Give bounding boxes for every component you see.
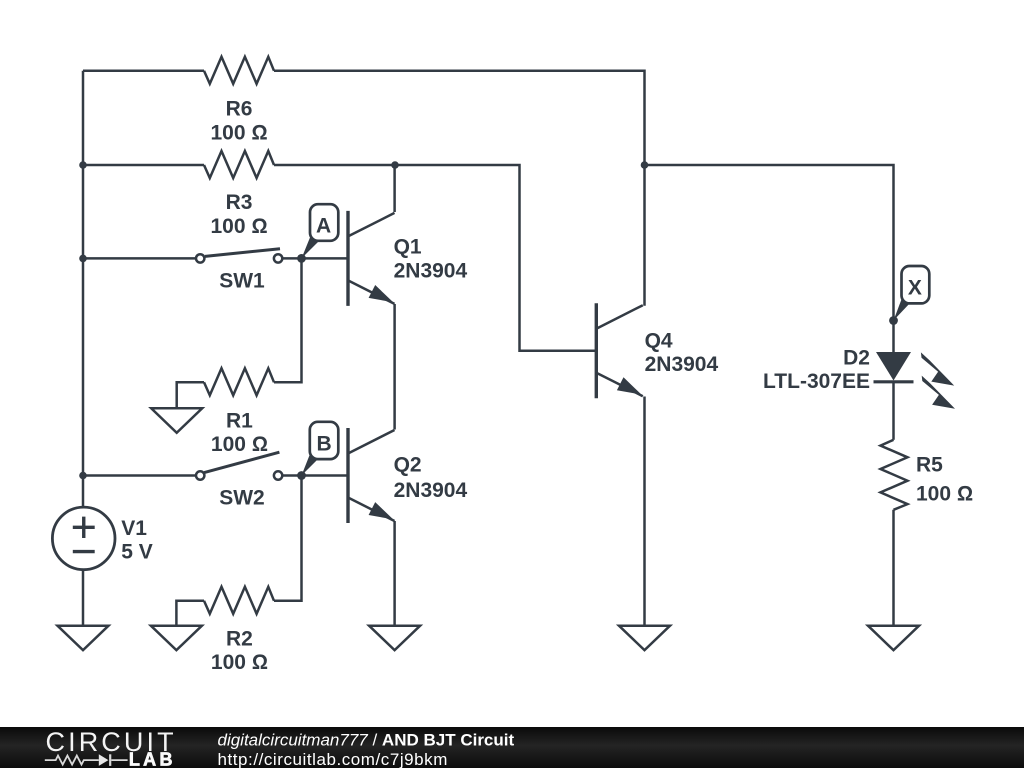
- wire R2 left lead to ground: [176, 601, 204, 626]
- svg-text:R3: R3: [226, 191, 253, 214]
- svg-text:100 Ω: 100 Ω: [211, 433, 268, 456]
- footer bar: [0, 727, 1024, 768]
- logo schematic squiggle: [45, 754, 128, 766]
- node dot X: [889, 316, 898, 325]
- wire top rail from left rail to R6: [83, 70, 204, 73]
- wire R6 right to corner and down through node to Q4 collector: [274, 71, 645, 306]
- wire SW2 row left: [83, 474, 196, 477]
- node dot left rail R3 row: [79, 161, 87, 169]
- wire node A down to R1: [274, 258, 302, 382]
- LED arrow 2: [922, 376, 955, 409]
- wire R3 row left lead: [83, 164, 204, 167]
- svg-text:X: X: [908, 276, 922, 299]
- svg-text:100 Ω: 100 Ω: [210, 122, 267, 145]
- wire R1 left lead to ground: [177, 382, 204, 408]
- wire Q2 emitter to ground: [393, 521, 396, 626]
- svg-text:digitalcircuitman777 / AND BJT: digitalcircuitman777 / AND BJT Circuit: [218, 730, 515, 749]
- node dot left rail SW2 row: [79, 472, 87, 480]
- svg-text:B: B: [317, 432, 332, 455]
- svg-text:LAB: LAB: [129, 750, 176, 768]
- resistor R3: [204, 151, 274, 178]
- wire SW1 row left: [83, 257, 196, 260]
- svg-text:R6: R6: [226, 98, 253, 121]
- voltage source V1: [52, 507, 115, 570]
- node dot A: [297, 254, 306, 263]
- svg-text:100 Ω: 100 Ω: [210, 215, 267, 238]
- svg-text:100 Ω: 100 Ω: [211, 651, 268, 674]
- wire R5 bottom to ground: [892, 510, 895, 626]
- svg-text:R5: R5: [916, 454, 943, 477]
- svg-text:2N3904: 2N3904: [394, 259, 468, 282]
- wire Q1 collector lead: [393, 165, 396, 212]
- ground below Q2: [369, 626, 420, 651]
- node label X: [894, 266, 930, 321]
- svg-text:http://circuitlab.com/c7j9bkm: http://circuitlab.com/c7j9bkm: [218, 750, 448, 768]
- resistor R1: [204, 368, 274, 395]
- svg-text:SW2: SW2: [219, 486, 265, 509]
- node dot Q1 collector: [391, 161, 399, 169]
- ground below Q4: [619, 626, 670, 651]
- switch SW2: [196, 452, 282, 479]
- svg-text:Q1: Q1: [394, 236, 422, 259]
- svg-text:Q2: Q2: [394, 454, 422, 477]
- wire SW1 to Q1 base: [283, 257, 348, 260]
- wire Q1 emitter to Q2 collector: [393, 304, 396, 430]
- node dot left rail SW1 row: [79, 255, 87, 263]
- logo diode triangle: [99, 754, 109, 766]
- ground below R1: [151, 408, 202, 433]
- LED D2: [874, 352, 956, 409]
- transistor Q4: [596, 303, 643, 398]
- node label B: [302, 422, 339, 476]
- wire V1 bottom to ground: [82, 570, 85, 626]
- node label A: [302, 204, 339, 258]
- svg-text:LTL-307EE: LTL-307EE: [763, 370, 870, 393]
- svg-text:D2: D2: [843, 346, 870, 369]
- wire LED cathode to R5: [892, 382, 895, 440]
- transistor Q1: [348, 211, 395, 306]
- transistor Q2: [348, 428, 395, 523]
- ground below R2: [151, 626, 202, 651]
- resistor R2: [204, 587, 274, 614]
- resistor R6: [204, 57, 274, 84]
- svg-text:2N3904: 2N3904: [394, 479, 468, 502]
- svg-text:V1: V1: [121, 517, 147, 540]
- LED arrow 1: [921, 352, 954, 385]
- wire SW2 to Q2 base: [283, 474, 348, 477]
- node dot R6/Q4 collector: [641, 161, 649, 169]
- resistor R5: [881, 440, 908, 510]
- wire Q4 emitter to ground: [643, 397, 646, 626]
- switch SW1: [196, 249, 282, 263]
- wire node B down to R2: [274, 476, 302, 601]
- ground below V1: [58, 626, 109, 651]
- wire left rail vertical: [82, 71, 85, 507]
- svg-text:2N3904: 2N3904: [645, 353, 719, 376]
- svg-text:R2: R2: [226, 628, 253, 651]
- svg-text:R1: R1: [226, 409, 253, 432]
- wire R3 right to Q4 base: [274, 165, 596, 351]
- wire node165 right to LED column: [645, 165, 894, 352]
- svg-text:A: A: [316, 214, 331, 237]
- svg-text:5 V: 5 V: [121, 540, 153, 563]
- ground below R5: [868, 626, 919, 651]
- svg-text:Q4: Q4: [645, 329, 673, 352]
- svg-text:100 Ω: 100 Ω: [916, 482, 973, 505]
- svg-text:SW1: SW1: [219, 269, 265, 292]
- node dot B: [297, 471, 306, 480]
